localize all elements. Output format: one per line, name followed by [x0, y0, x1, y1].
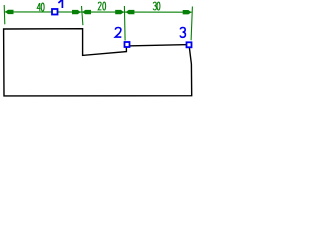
part outline (stepped block) — [4, 29, 192, 96]
arrowhead right of dim 40 (points right) — [72, 10, 81, 14]
grip point 3 — [187, 42, 192, 47]
extension line 3 (down to point 2) — [123, 6, 126, 41]
dim text 20 — [98, 2, 106, 10]
extension line 1 (left) — [3, 5, 6, 24]
extension line 2 — [82, 6, 83, 25]
extension line 4 (down to point 3) — [191, 7, 192, 41]
arrowhead right of dim 30 (points right) — [183, 10, 192, 14]
dim text 40 — [37, 3, 44, 11]
arrowhead right of dim 20 (points right) — [115, 10, 124, 14]
label 2 — [115, 28, 121, 38]
label 3 — [180, 28, 185, 38]
dimension line — [5, 11, 192, 13]
arrowhead left of dim 40 (points left) — [5, 10, 14, 14]
grip point 2 — [125, 42, 130, 47]
label 1 — [58, 0, 62, 8]
arrowhead left of dim 20 (points left) — [82, 10, 91, 14]
grip point 1 — [52, 9, 58, 15]
arrowhead left of dim 30 (points left) — [126, 10, 135, 14]
dim text 30 — [153, 2, 160, 10]
